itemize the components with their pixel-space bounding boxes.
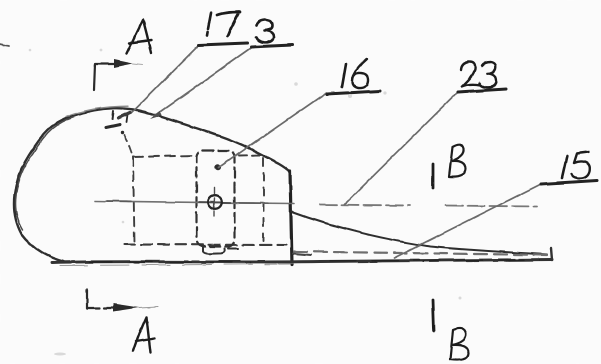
large dashed rect bottom edge	[124, 243, 286, 246]
label 15 underline	[541, 181, 597, 185]
body right vertical edge	[290, 171, 292, 265]
leader 17	[131, 45, 199, 113]
large dashed rect left edge	[133, 157, 135, 243]
noise specks	[29, 49, 462, 356]
letter A bottom	[133, 317, 155, 353]
tail top curve	[292, 212, 547, 255]
detail 17 thick mark	[106, 125, 120, 128]
leader 3 arrowhead	[150, 111, 162, 119]
leader 17 arrowhead	[118, 113, 130, 119]
leader 16	[218, 93, 326, 168]
detail 17 dot	[120, 131, 123, 134]
bottom line chalk overlay	[60, 264, 300, 266]
hub circle	[208, 195, 222, 209]
tail tip tick	[551, 248, 552, 260]
label 16 digit 1	[342, 64, 346, 87]
detail 17 small tick	[127, 115, 128, 123]
leader 3	[154, 47, 252, 116]
body apex overshoot chalk	[66, 106, 128, 117]
label 23 underline	[458, 89, 506, 92]
B marker bottom tick	[433, 300, 434, 331]
hub vertical tick	[213, 188, 216, 216]
section marker top faint ext	[133, 64, 143, 65]
center line dark chalk right	[239, 202, 268, 204]
large dashed rect top right segment	[239, 154, 264, 157]
center line dark chalk left	[107, 200, 131, 202]
label 23 digit 3	[479, 62, 496, 87]
label 17 digit 1	[207, 13, 211, 36]
section marker bottom bracket	[87, 290, 114, 309]
leader 15	[394, 184, 541, 258]
label 15 digit 1	[562, 156, 567, 178]
label 16 underline	[327, 91, 380, 94]
section marker bottom arrow	[113, 304, 139, 312]
label 3 digit	[256, 20, 274, 42]
body nose outline second chalk stroke	[16, 117, 74, 230]
large dashed rect right edge	[263, 158, 265, 243]
section marker top arrow	[114, 60, 133, 68]
rounded dashed rect	[197, 151, 235, 247]
letter B bottom	[450, 328, 468, 359]
label 3 underline	[251, 45, 292, 47]
bottom line dark chalk dashes	[90, 261, 250, 264]
rounded rect foot	[203, 247, 225, 254]
tail dashed surface line	[294, 252, 549, 256]
leader 23	[345, 92, 458, 204]
center line dark segment at hub	[199, 201, 231, 204]
section marker bottom faint ext	[139, 307, 158, 308]
body nose outline	[14, 108, 290, 261]
hook at body base	[293, 254, 311, 256]
detail 17 tick	[112, 111, 113, 119]
label 16 digit 6	[352, 59, 368, 88]
center line tail dash group 1	[320, 205, 410, 206]
label 15 digit 5	[571, 152, 590, 178]
label 17 digit 7	[217, 12, 240, 36]
B marker top tick	[432, 164, 435, 188]
large dashed rect top edge	[133, 156, 196, 158]
rounded rect foot dash	[228, 248, 238, 250]
label 23 digit 2	[461, 62, 480, 87]
detail dashed connector	[124, 135, 132, 153]
center line tail dash group 2	[446, 206, 537, 207]
section marker top bracket	[94, 64, 114, 90]
bottom line	[52, 260, 552, 263]
label 17 underline	[199, 43, 247, 45]
letter A top	[127, 20, 152, 54]
letter B top	[449, 145, 466, 177]
leader dot 16	[214, 164, 220, 170]
edge scratch top-left	[0, 44, 9, 46]
center line interior	[95, 201, 294, 204]
